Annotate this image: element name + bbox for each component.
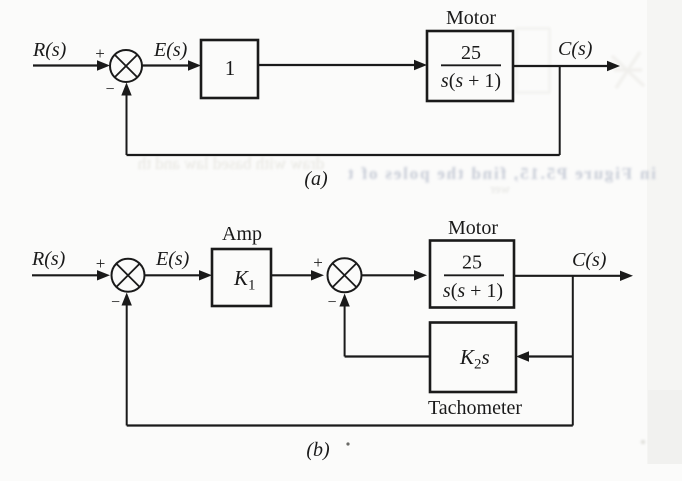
summing junction S1 xyxy=(110,50,142,82)
wire branch node down (a) xyxy=(559,66,561,155)
label Motor (b) xyxy=(448,217,498,239)
svg-text:+: + xyxy=(96,254,106,273)
svg-text:R(s): R(s) xyxy=(32,39,67,61)
svg-text:s(s + 1): s(s + 1) xyxy=(441,70,501,92)
plus sign at S3 xyxy=(313,253,323,272)
svg-text:−: − xyxy=(111,294,120,311)
minus sign at S1 xyxy=(105,81,114,98)
svg-text:Motor: Motor xyxy=(448,217,498,239)
svg-text:wer: wer xyxy=(490,181,510,196)
block G1 gain 1 xyxy=(201,40,258,98)
stray dot after (b) xyxy=(346,442,349,445)
wire input R(s) to summer S1 xyxy=(33,60,110,70)
wire branch node down (b) xyxy=(572,276,574,426)
wire input to summer S2 xyxy=(32,270,110,280)
minus sign at S3 xyxy=(327,294,336,311)
svg-text:C(s): C(s) xyxy=(572,249,607,271)
svg-text:25: 25 xyxy=(462,252,482,274)
wire feedback up into S1 xyxy=(121,83,131,156)
svg-text:E(s): E(s) xyxy=(155,248,190,270)
wire S2 to amplifier K1 xyxy=(145,270,213,280)
plus sign at S1 xyxy=(95,44,105,63)
wire outer feedback up into S2 xyxy=(122,293,132,426)
node E(s) label (b) xyxy=(155,248,190,270)
summing junction S2 xyxy=(112,259,145,292)
wire S3 to motor block (b) xyxy=(362,270,428,280)
svg-text:(b): (b) xyxy=(306,439,330,461)
label (a) xyxy=(304,168,328,190)
block motor (a) 25/s(s+1) xyxy=(427,31,513,101)
svg-text:−: − xyxy=(327,294,336,311)
wire outer feedback bottom (b) xyxy=(127,424,573,426)
node C(s) label (b) xyxy=(572,249,607,271)
label Motor (a) xyxy=(446,7,496,29)
svg-text:E(s): E(s) xyxy=(153,39,188,61)
svg-text:(a): (a) xyxy=(304,168,328,190)
wire tachometer pickoff into K2s xyxy=(516,351,573,361)
wire motor to output C(s) xyxy=(513,61,620,71)
svg-text:+: + xyxy=(313,253,323,272)
wire K1 to summer S3 xyxy=(271,270,324,280)
block motor (b) 25/s(s+1) xyxy=(430,241,514,308)
svg-text:draw with based law and th: draw with based law and th xyxy=(137,154,324,173)
minus sign at S2 xyxy=(111,294,120,311)
svg-text:1: 1 xyxy=(225,56,236,80)
wire G1 to motor block xyxy=(258,60,427,70)
plus sign at S2 xyxy=(96,254,106,273)
svg-text:Amp: Amp xyxy=(222,223,262,245)
block K1 amplifier xyxy=(212,249,271,306)
svg-text:Motor: Motor xyxy=(446,7,496,29)
wire feedback bottom (a) xyxy=(127,154,560,156)
svg-text:Tachometer: Tachometer xyxy=(428,397,522,419)
svg-text:−: − xyxy=(105,81,114,98)
node R(s) input label xyxy=(32,39,67,61)
label Amp xyxy=(222,223,262,245)
wire up into S3 from tachometer xyxy=(339,294,349,357)
svg-text:C(s): C(s) xyxy=(558,38,593,60)
node R(s) input label (b) xyxy=(31,248,66,270)
wire motor to output C(s) (b) xyxy=(514,271,633,281)
node E(s) label xyxy=(153,39,188,61)
node C(s) label (a) xyxy=(558,38,593,60)
svg-text:s(s + 1): s(s + 1) xyxy=(443,280,503,302)
label (b) xyxy=(306,439,330,461)
summing junction S3 xyxy=(328,258,362,292)
label Tachometer xyxy=(428,397,522,419)
svg-text:R(s): R(s) xyxy=(31,248,66,270)
wire S1 to block G1 xyxy=(142,60,201,70)
block K2s tachometer xyxy=(430,323,516,393)
svg-text:+: + xyxy=(95,44,105,63)
wire K2s to S3 horizontal xyxy=(345,355,430,357)
svg-text:25: 25 xyxy=(461,42,481,64)
